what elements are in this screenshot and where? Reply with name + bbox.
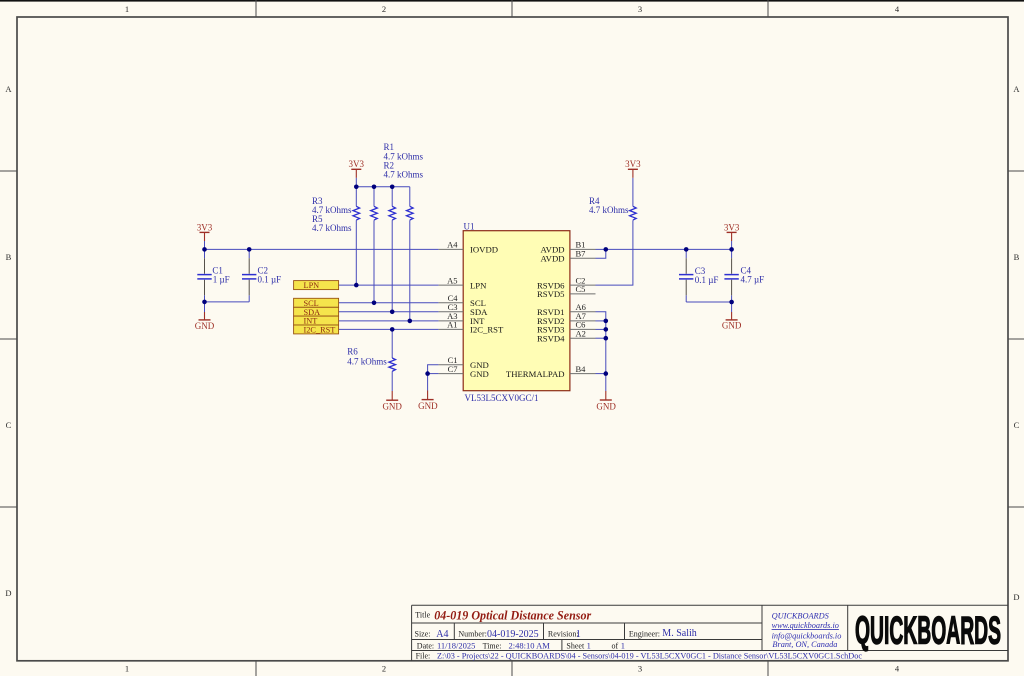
wire B7 join bbox=[596, 249, 606, 258]
svg-text:3V3: 3V3 bbox=[625, 159, 641, 169]
wire R6 top bbox=[391, 329, 393, 358]
svg-text:R6: R6 bbox=[347, 347, 358, 357]
wire R2 bottom to SDA bbox=[391, 220, 393, 312]
svg-text:0.1 µF: 0.1 µF bbox=[695, 275, 719, 285]
wire GND C1 pin bbox=[428, 365, 439, 374]
resistor R4 body bbox=[630, 206, 637, 220]
svg-text:GND: GND bbox=[382, 401, 402, 411]
node INT bbox=[408, 319, 413, 324]
svg-text:GND: GND bbox=[470, 369, 489, 379]
svg-text:11/18/2025: 11/18/2025 bbox=[437, 640, 475, 650]
wire right gnd rail bbox=[686, 301, 731, 303]
wire B4 bbox=[596, 373, 606, 375]
svg-text:Time:: Time: bbox=[483, 641, 502, 650]
svg-text:4.7 µF: 4.7 µF bbox=[741, 275, 765, 285]
zone tick bottom 2|3 bbox=[511, 661, 513, 676]
svg-text:GND: GND bbox=[195, 321, 215, 331]
wire 3V3 right stem bbox=[731, 241, 733, 249]
wire SCL bbox=[339, 302, 439, 304]
zone labels top bbox=[125, 4, 900, 14]
wire C2 top bbox=[248, 249, 250, 258]
node IOVDD rail bbox=[202, 247, 207, 252]
company info box bbox=[772, 612, 842, 649]
wire RSVD3 bbox=[596, 328, 606, 330]
wire C4 bottom bbox=[731, 295, 733, 302]
svg-text:A: A bbox=[1013, 84, 1020, 94]
svg-text:A2: A2 bbox=[576, 328, 586, 338]
svg-text:IOVDD: IOVDD bbox=[470, 245, 498, 255]
svg-text:3V3: 3V3 bbox=[197, 222, 213, 232]
label R4 bbox=[589, 196, 629, 215]
wire IOVDD rail bbox=[205, 248, 439, 250]
svg-text:0.1 µF: 0.1 µF bbox=[258, 275, 282, 285]
svg-text:D: D bbox=[5, 588, 11, 598]
power 3V3 above R4 bbox=[625, 159, 641, 178]
wire GND C7 pin bbox=[428, 373, 439, 375]
pin lines U1 bbox=[439, 249, 596, 373]
svg-text:Z:\03 - Projects\22 - QUICKBOA: Z:\03 - Projects\22 - QUICKBOARDS\04 - S… bbox=[437, 651, 862, 661]
wire R3 top bbox=[355, 187, 357, 207]
zone tick left B|C bbox=[0, 338, 17, 340]
svg-text:B: B bbox=[1014, 252, 1020, 262]
zone labels right bbox=[1013, 84, 1020, 602]
resistor R3 body bbox=[353, 206, 360, 220]
zone tick left C|D bbox=[0, 506, 17, 508]
svg-text:2: 2 bbox=[382, 664, 386, 674]
svg-text:Title: Title bbox=[415, 611, 430, 620]
node right gnd bbox=[729, 300, 734, 305]
ground right bbox=[722, 312, 742, 331]
node RSVD4 bbox=[604, 336, 609, 341]
ground b4 bbox=[596, 391, 616, 411]
wire R1 bottom to SCL bbox=[373, 220, 375, 303]
svg-text:File:: File: bbox=[416, 652, 431, 661]
wire C4 top bbox=[731, 249, 733, 258]
zone tick bottom 1|2 bbox=[255, 661, 257, 676]
zone tick left A|B bbox=[0, 170, 17, 172]
svg-text:04-019-2025: 04-019-2025 bbox=[487, 629, 539, 640]
svg-text:A: A bbox=[5, 84, 12, 94]
wire C2 bottom bbox=[248, 295, 250, 302]
wire R6 bottom bbox=[391, 371, 393, 391]
wire 3V3 left stem bbox=[204, 241, 206, 249]
svg-text:1: 1 bbox=[621, 640, 625, 650]
title block frame bbox=[412, 605, 1008, 661]
node RSVD3 bbox=[604, 327, 609, 332]
node gnd ic bbox=[425, 371, 430, 376]
label R3 R5 bbox=[312, 196, 352, 233]
resistor R2 body bbox=[389, 206, 396, 220]
port I2C_RST bbox=[294, 325, 339, 335]
pin numbers right bbox=[576, 240, 587, 374]
node B4 bbox=[604, 371, 609, 376]
svg-text:3V3: 3V3 bbox=[349, 159, 365, 169]
node 3V3 bus bbox=[354, 185, 359, 190]
svg-text:Date:: Date: bbox=[417, 641, 434, 650]
svg-text:GND: GND bbox=[418, 401, 438, 411]
wire C3 bottom bbox=[685, 295, 687, 302]
svg-text:LPN: LPN bbox=[470, 280, 487, 290]
zone labels left bbox=[5, 84, 12, 598]
resistor R5 body bbox=[406, 206, 413, 220]
svg-text:A4: A4 bbox=[447, 240, 458, 250]
svg-text:LPN: LPN bbox=[304, 281, 320, 290]
wire right gnd stem bbox=[731, 302, 733, 312]
zone tick bottom 3|4 bbox=[767, 661, 769, 676]
node left gnd bbox=[202, 300, 207, 305]
label C3 bbox=[695, 266, 719, 285]
svg-text:Size:: Size: bbox=[415, 629, 431, 638]
capacitor C2 bbox=[242, 258, 256, 295]
wire R4 bottom to RSVD6 bbox=[596, 220, 633, 285]
wire left gnd stem bbox=[204, 302, 206, 312]
wire AVDD rail bbox=[596, 248, 732, 250]
svg-text:M. Salih: M. Salih bbox=[662, 628, 696, 639]
wire gnd b4 stem bbox=[605, 374, 607, 391]
svg-text:VL53L5CXV0GC/1: VL53L5CXV0GC/1 bbox=[465, 393, 539, 403]
capacitor C3 bbox=[679, 258, 693, 295]
op-amp U1 body bbox=[463, 221, 570, 403]
zone tick top 3|4 bbox=[767, 0, 769, 17]
port LPN bbox=[294, 281, 339, 291]
wire 3V3 R4 stem bbox=[632, 178, 634, 207]
svg-text:1: 1 bbox=[125, 664, 129, 674]
svg-text:U1: U1 bbox=[464, 221, 475, 231]
svg-text:C: C bbox=[6, 420, 12, 430]
svg-text:A1: A1 bbox=[447, 320, 457, 330]
svg-text:C: C bbox=[1014, 420, 1020, 430]
svg-text:1: 1 bbox=[587, 640, 591, 650]
svg-text:B: B bbox=[6, 252, 12, 262]
zone tick top 2|3 bbox=[511, 0, 513, 17]
junction dots bbox=[202, 185, 734, 376]
svg-text:GND: GND bbox=[596, 401, 616, 411]
wire RSVD4 bbox=[596, 337, 606, 339]
wire RSVD2 bbox=[596, 320, 606, 322]
svg-text:1 µF: 1 µF bbox=[213, 275, 230, 285]
power 3V3 top-left bbox=[349, 159, 365, 178]
svg-text:1: 1 bbox=[576, 629, 581, 640]
wire gnd ic stem bbox=[427, 374, 429, 391]
svg-text:GND: GND bbox=[722, 321, 742, 331]
port SDA bbox=[294, 307, 339, 317]
svg-text:3V3: 3V3 bbox=[724, 222, 740, 232]
label R6 bbox=[347, 347, 387, 367]
svg-text:D: D bbox=[1013, 592, 1019, 602]
wire pullup bus bbox=[356, 186, 410, 188]
wire C1 bottom bbox=[204, 295, 206, 302]
svg-text:Revision:: Revision: bbox=[548, 629, 579, 638]
wire R5 top bbox=[409, 187, 411, 207]
svg-text:Brant, ON, Canada: Brant, ON, Canada bbox=[772, 640, 837, 649]
svg-text:SDA: SDA bbox=[304, 308, 321, 317]
svg-text:INT: INT bbox=[304, 317, 318, 326]
resistor R6 body bbox=[389, 358, 396, 371]
node SDA bbox=[390, 310, 395, 315]
wire RSVD net vertical bbox=[596, 312, 606, 374]
svg-text:4.7 kOhms: 4.7 kOhms bbox=[589, 205, 629, 215]
wire R2 top bbox=[391, 187, 393, 207]
capacitor C4 bbox=[724, 258, 738, 295]
svg-text:2: 2 bbox=[382, 4, 386, 14]
node RSVD2 bbox=[604, 319, 609, 324]
svg-text:info@quickboards.io: info@quickboards.io bbox=[772, 631, 842, 640]
label R1 R2 bbox=[384, 142, 424, 179]
svg-text:B7: B7 bbox=[576, 249, 586, 259]
wire LPN bbox=[339, 284, 439, 286]
svg-text:Engineer:: Engineer: bbox=[629, 629, 660, 638]
zone tick right A|B bbox=[1008, 170, 1024, 172]
pin names right bbox=[506, 245, 565, 379]
svg-text:I2C_RST: I2C_RST bbox=[304, 326, 336, 335]
wire C1 top bbox=[204, 249, 206, 258]
svg-text:C7: C7 bbox=[448, 364, 458, 374]
node AVDD bbox=[604, 247, 609, 252]
svg-text:QUICKBOARDS: QUICKBOARDS bbox=[772, 612, 830, 621]
svg-text:www.quickboards.io: www.quickboards.io bbox=[772, 621, 839, 630]
ground under R6 bbox=[382, 391, 402, 411]
svg-text:4.7 kOhms: 4.7 kOhms bbox=[312, 223, 352, 233]
svg-text:RSVD4: RSVD4 bbox=[537, 333, 565, 343]
svg-text:Sheet: Sheet bbox=[566, 641, 585, 650]
port SCL bbox=[294, 298, 339, 308]
svg-text:A4: A4 bbox=[436, 629, 448, 640]
wire SDA bbox=[339, 311, 439, 313]
wire C3 top bbox=[685, 249, 687, 258]
ground left bbox=[195, 312, 215, 331]
capacitor C1 bbox=[197, 258, 211, 295]
svg-text:3: 3 bbox=[638, 4, 642, 14]
zone tick right B|C bbox=[1008, 338, 1024, 340]
svg-text:I2C_RST: I2C_RST bbox=[470, 325, 504, 335]
node LPN bbox=[354, 283, 359, 288]
power 3V3 right bbox=[724, 222, 740, 241]
wire R5 bottom to INT bbox=[409, 220, 411, 321]
pin numbers left bbox=[447, 240, 458, 374]
wire R3 bottom to LPN bbox=[355, 220, 357, 285]
wire I2C_RST bbox=[339, 328, 439, 330]
node I2C_RST bbox=[390, 327, 395, 332]
top edge line bbox=[0, 0, 1024, 2]
svg-text:04-019 Optical Distance Sensor: 04-019 Optical Distance Sensor bbox=[434, 609, 591, 623]
svg-text:of: of bbox=[612, 641, 619, 650]
svg-text:4.7 kOhms: 4.7 kOhms bbox=[347, 357, 387, 367]
svg-text:RSVD5: RSVD5 bbox=[537, 289, 565, 299]
ground ic bbox=[418, 391, 438, 412]
svg-text:A5: A5 bbox=[447, 275, 457, 285]
port INT bbox=[294, 316, 339, 326]
zone tick top 1|2 bbox=[255, 0, 257, 17]
wire R1 top bbox=[373, 187, 375, 207]
svg-text:B4: B4 bbox=[576, 364, 587, 374]
svg-text:2:48:10 AM: 2:48:10 AM bbox=[509, 640, 551, 650]
label C2 bbox=[258, 265, 282, 284]
svg-text:1: 1 bbox=[125, 4, 129, 14]
wire left gnd rail bbox=[205, 301, 250, 303]
wire INT bbox=[339, 320, 439, 322]
svg-text:Number:: Number: bbox=[458, 629, 486, 638]
svg-text:QUICKBOARDS: QUICKBOARDS bbox=[855, 610, 1001, 653]
zone labels bottom bbox=[125, 664, 900, 674]
svg-text:THERMALPAD: THERMALPAD bbox=[506, 369, 565, 379]
resistor R1 body bbox=[371, 206, 378, 220]
svg-text:C5: C5 bbox=[576, 284, 586, 294]
pin names left bbox=[470, 245, 504, 379]
zone tick right C|D bbox=[1008, 506, 1024, 508]
node SCL bbox=[372, 301, 377, 306]
svg-text:SCL: SCL bbox=[304, 299, 319, 308]
power 3V3 left bbox=[197, 222, 213, 241]
svg-text:AVDD: AVDD bbox=[541, 254, 565, 264]
svg-text:3: 3 bbox=[638, 664, 642, 674]
label C1 bbox=[212, 265, 229, 284]
label C4 bbox=[741, 266, 765, 285]
wire 3V3 pullup stem bbox=[355, 178, 357, 187]
svg-text:4.7 kOhms: 4.7 kOhms bbox=[384, 170, 424, 180]
